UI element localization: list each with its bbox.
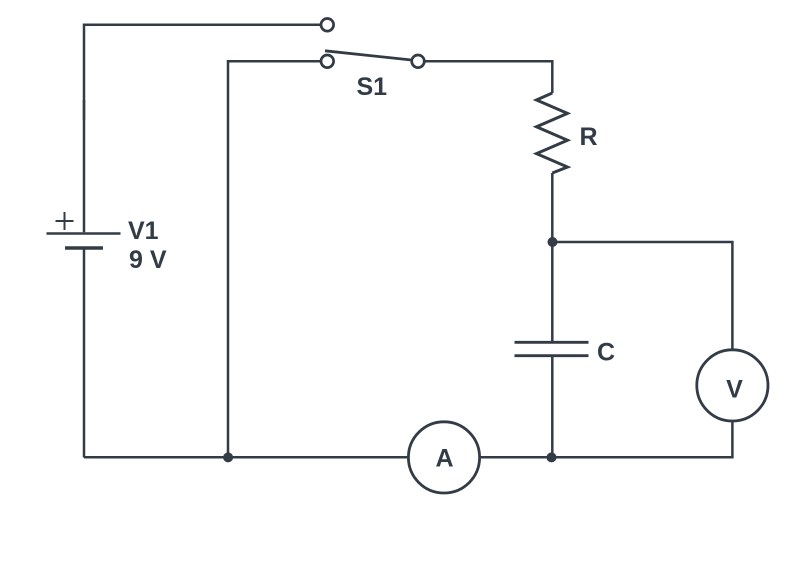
wire voltmeter bottom to bottom rail [480,421,733,457]
resistor R zigzag [537,93,568,173]
wire node A to voltmeter top [552,242,732,350]
svg-text:S1: S1 [357,73,388,101]
switch S1 pole terminal [321,55,334,68]
node junction dot (node A: resistor/capacitor/voltmeter) [548,237,558,247]
wire capacitor bottom plate to bottom rail [551,357,554,457]
switch S1 lever [325,51,412,60]
svg-text:C: C [597,339,615,367]
svg-text:V1: V1 [128,217,159,245]
wire top-left horizontal (battery top to switch throw 1) [84,25,320,120]
capacitor C [515,339,616,367]
wire battery branch vertical upper [83,100,86,232]
switch S1 throw terminal 1 (top) [321,19,334,32]
switch S1 [321,19,424,102]
wire bottom rail left of ammeter [84,456,408,459]
wire resistor bottom to node A [551,173,554,242]
wire node A to capacitor top plate [551,242,554,341]
wire second branch vertical + horizontal to switch pole [228,61,320,457]
svg-text:R: R [580,123,598,151]
voltmeter V body circle [697,350,768,421]
svg-text:9 V: 9 V [129,246,167,274]
wire switch throw 2 to resistor top [425,61,552,93]
resistor R [537,93,598,173]
ammeter A body circle [408,422,479,493]
capacitor C top plate [515,341,589,344]
capacitor C bottom plate [515,354,589,357]
battery V1 plus sign [56,212,74,230]
node junction dot (bottom rail / capacitor) [547,452,557,462]
switch S1 throw terminal 2 [412,55,425,68]
node junction dot (bottom rail / second branch) [223,452,233,462]
battery V1 positive plate [47,232,121,235]
battery V1 negative plate [65,246,103,250]
wire battery branch vertical lower [83,250,86,458]
battery V1 [47,212,167,274]
svg-text:V: V [726,376,743,404]
ammeter A [408,422,479,493]
svg-text:A: A [435,444,453,472]
voltmeter V [697,350,768,421]
